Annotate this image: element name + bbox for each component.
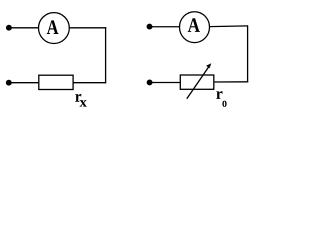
terminal dot top-left (left circuit) — [6, 25, 12, 31]
wire corner to resistor (left circuit bottom) — [73, 82, 106, 84]
ammeter A1 (left circuit) — [39, 13, 70, 44]
wire vertical right side (right circuit) — [247, 25, 249, 82]
wire corner to rheostat (right circuit bottom) — [214, 81, 248, 83]
terminal dot bottom-left (right circuit) — [147, 79, 153, 85]
rheostat arrow — [187, 63, 212, 99]
label rx — [75, 94, 87, 107]
wire terminal to ammeter (right circuit top) — [150, 26, 181, 28]
wire ammeter to corner (right circuit top) — [210, 25, 248, 28]
wire vertical right side (left circuit) — [105, 27, 107, 83]
rheostat ro body — [180, 75, 214, 89]
wire ammeter to corner (left circuit top) — [69, 27, 106, 29]
terminal dot top-left (right circuit) — [147, 24, 153, 30]
terminal dot bottom-left (left circuit) — [6, 80, 12, 86]
wire terminal to ammeter (left circuit top) — [9, 27, 39, 29]
ammeter A2 (right circuit) — [180, 12, 210, 43]
resistor rx body — [39, 75, 73, 89]
label ro — [216, 91, 226, 107]
wire resistor to terminal (left circuit bottom) — [9, 82, 39, 84]
wire rheostat to terminal (right circuit bottom) — [150, 82, 181, 84]
